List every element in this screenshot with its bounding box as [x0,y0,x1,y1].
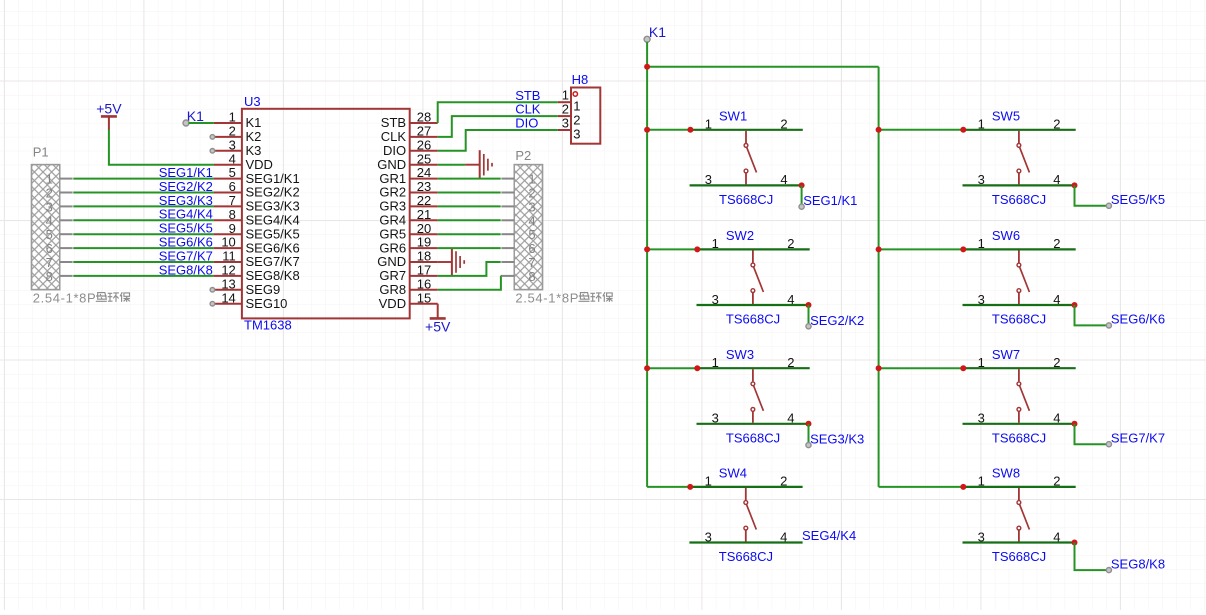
wire P1 pin 5 to U3 SEG5/K5 [73,233,214,235]
svg-text:17: 17 [417,263,431,278]
svg-text:9: 9 [229,221,236,236]
svg-text:SEG3/K3: SEG3/K3 [246,199,300,214]
svg-text:TS668CJ: TS668CJ [992,192,1046,207]
connector P1 [32,165,73,290]
svg-text:K1: K1 [246,115,262,130]
wire U3 pin 22 GR3 to P2 pin 3 [438,205,501,207]
svg-text:19: 19 [417,235,431,250]
svg-text:SEG10: SEG10 [246,296,288,311]
junction on K1 bus at top [644,64,650,70]
wire SW3 pin 4 to net label [808,424,810,445]
svg-text:4: 4 [229,151,236,166]
svg-text:8: 8 [46,269,53,284]
svg-text:TS668CJ: TS668CJ [726,312,780,327]
svg-text:SEG8/K8: SEG8/K8 [246,268,300,283]
junction SW4 pin 1 [687,484,693,490]
svg-text:SEG7/K7: SEG7/K7 [1111,430,1165,445]
U3 right pins 15-28 with numbers and names [377,110,437,311]
connector H8 body [558,88,601,144]
junction SW2 pin 1 [694,246,700,252]
svg-text:27: 27 [417,124,431,139]
wire P1 pin 1 to U3 SEG1/K1 [73,178,214,180]
wire U3 pin 21 GR4 to P2 pin 4 [438,219,501,221]
svg-text:16: 16 [417,276,431,291]
wire U3 pin 23 GR2 to P2 pin 2 [438,192,501,194]
svg-text:26: 26 [417,137,431,152]
svg-text:4: 4 [46,213,53,228]
svg-text:1: 1 [562,88,569,103]
svg-text:+5V: +5V [425,318,451,334]
svg-text:SEG7/K7: SEG7/K7 [159,248,213,263]
svg-text:SEG7/K7: SEG7/K7 [246,254,300,269]
svg-text:3: 3 [562,115,569,130]
wire P1 pin 8 to U3 SEG8/K8 [73,275,214,277]
net port K1 (U3 pin 1) [183,108,204,126]
svg-text:SEG1/K1: SEG1/K1 [159,165,213,180]
wire DIO: U3 pin26 to H8 pin3 [438,130,558,151]
svg-text:TS668CJ: TS668CJ [992,312,1046,327]
svg-text:8: 8 [528,269,535,284]
svg-text:21: 21 [417,207,431,222]
svg-text:7: 7 [229,193,236,208]
svg-text:3: 3 [528,199,535,214]
svg-text:TS668CJ: TS668CJ [719,192,773,207]
wire P1 pin 6 to U3 SEG6/K6 [73,247,214,249]
svg-text:GR3: GR3 [379,199,406,214]
junction SW6 pin 4 [1072,302,1078,308]
svg-text:SEG9: SEG9 [246,282,281,297]
junction SW1 pin 4 [799,182,805,188]
svg-text:23: 23 [417,179,431,194]
wire U3 pin 24 GR1 to P2 pin 1 [438,178,501,180]
svg-text:SEG3/K3: SEG3/K3 [810,432,864,447]
junction SW8 pin 1 [960,484,966,490]
svg-text:SW5: SW5 [992,109,1020,124]
svg-text:7: 7 [46,255,53,270]
junction K1 bus at SW2 [644,246,650,252]
switch SW6 TS668CJ [963,228,1076,326]
power +5V (U3 pin 15) [425,304,451,335]
junction SW7 pin 1 [960,365,966,371]
junction SW1 pin 1 [687,127,693,133]
P1 value label 2.54-1*8P CJK [33,290,130,305]
svg-text:2: 2 [573,113,580,128]
wire K1 top bus to right column [647,66,879,68]
wire U3 pin 17 GR7 to P2 pin 7 [438,262,501,276]
svg-text:2.54-1*8P: 2.54-1*8P [33,290,97,305]
svg-text:K2: K2 [246,129,262,144]
junction K1 bus at SW3 [644,365,650,371]
wire U3 pin 16 GR8 to P2 pin 8 [438,276,501,290]
wire P1 pin 4 to U3 SEG4/K4 [73,219,214,221]
svg-text:2: 2 [562,101,569,116]
svg-text:SEG8/K8: SEG8/K8 [159,262,213,277]
svg-text:GND: GND [377,157,406,172]
svg-text:K3: K3 [246,143,262,158]
junction SW2 pin 4 [806,302,812,308]
junction K1 bus at SW1 [644,127,650,133]
svg-text:SW2: SW2 [726,228,754,243]
U3 left pins 1-14 with numbers and names [214,110,300,311]
svg-text:1: 1 [229,110,236,125]
junction SW5 pin 4 [1072,182,1078,188]
svg-text:CLK: CLK [515,102,541,117]
svg-text:SW1: SW1 [719,109,747,124]
svg-text:U3: U3 [244,94,261,109]
svg-text:SEG4/K4: SEG4/K4 [802,528,856,543]
svg-text:GND: GND [377,254,406,269]
svg-text:22: 22 [417,193,431,208]
svg-text:2: 2 [528,186,535,201]
ground GND at U3 pin 18 [438,248,465,277]
wire K1 bus to SW3 pin 1 [647,367,698,369]
wire K1 bus to SW6 pin 1 [879,248,965,250]
junction SW6 pin 1 [960,246,966,252]
junction K1 bus at SW6 [876,246,882,252]
wire U3 pin 20 GR5 to P2 pin 5 [438,233,501,235]
svg-text:VDD: VDD [379,296,406,311]
svg-text:SEG6/K6: SEG6/K6 [1111,312,1165,327]
svg-text:7: 7 [528,255,535,270]
svg-text:DIO: DIO [515,116,538,131]
wire K1 bus to SW5 pin 1 [879,129,965,131]
net port K1 (key matrix) [644,24,666,42]
svg-text:STB: STB [381,115,406,130]
wire SW1 pin 4 to net label [801,185,803,206]
wire K1 vertical bus (right) [878,67,880,487]
switch SW3 TS668CJ [697,347,810,445]
wire K1 bus to SW2 pin 1 [647,248,698,250]
wire P1 pin 7 to U3 SEG7/K7 [73,261,214,263]
junction SW5 pin 1 [960,127,966,133]
svg-text:15: 15 [417,290,431,305]
ground GND at U3 pin 25 [438,150,492,179]
svg-text:SEG5/K5: SEG5/K5 [246,226,300,241]
wire U3 pin 19 GR6 to P2 pin 6 [438,247,501,249]
switch SW1 TS668CJ [690,109,803,207]
svg-text:STB: STB [515,88,540,103]
wire SW8 pin 4 to net label [1075,543,1109,571]
svg-text:SW8: SW8 [992,466,1020,481]
wire P1 pin 3 to U3 SEG3/K3 [73,205,214,207]
svg-text:TS668CJ: TS668CJ [726,430,780,445]
U3 no-connect dots pins 2,3,13,14 [210,135,215,306]
wire K1 bus to SW8 pin 1 [879,486,965,488]
svg-text:GR4: GR4 [379,213,406,228]
wire STB: U3 pin28 to H8 pin1 [438,102,558,123]
junction K1 bus at SW5 [876,127,882,133]
svg-text:GR2: GR2 [379,185,406,200]
svg-text:SEG2/K2: SEG2/K2 [810,313,864,328]
wire K1 vertical bus (left) [646,42,648,487]
svg-text:SEG2/K2: SEG2/K2 [159,179,213,194]
svg-text:6: 6 [528,241,535,256]
wire SW2 pin 4 to net label [808,305,810,326]
svg-text:SW3: SW3 [726,347,754,362]
svg-text:GR5: GR5 [379,226,406,241]
svg-text:18: 18 [417,249,431,264]
junction SW8 pin 4 [1072,540,1078,546]
svg-text:1: 1 [573,99,580,114]
svg-text:28: 28 [417,110,431,125]
svg-text:GR7: GR7 [379,268,406,283]
svg-text:SEG4/K4: SEG4/K4 [159,207,213,222]
wire K1 bus to SW7 pin 1 [879,367,965,369]
svg-text:SEG2/K2: SEG2/K2 [246,185,300,200]
svg-text:VDD: VDD [246,157,273,172]
svg-text:GR8: GR8 [379,282,406,297]
svg-text:GR1: GR1 [379,171,406,186]
svg-text:SEG8/K8: SEG8/K8 [1111,556,1165,571]
wire CLK: U3 pin27 to H8 pin2 [438,116,558,137]
wire SW7 pin 4 to net label [1075,424,1109,444]
svg-text:SEG3/K3: SEG3/K3 [159,193,213,208]
svg-text:11: 11 [222,249,236,264]
junction SW7 pin 4 [1072,421,1078,427]
svg-text:2: 2 [46,186,53,201]
wire SW6 pin 4 to net label [1075,305,1109,325]
svg-text:12: 12 [221,263,235,278]
switch SW4 TS668CJ [689,466,802,564]
wire K1 to U3 pin 1 [189,122,214,124]
svg-text:+5V: +5V [96,100,122,116]
svg-text:4: 4 [528,213,535,228]
junction K1 bus at SW7 [876,365,882,371]
svg-text:1: 1 [46,172,53,187]
IC U3 TM1638 body [242,109,410,319]
power +5V (top left) [96,100,122,130]
svg-text:6: 6 [46,241,53,256]
svg-text:3: 3 [573,126,580,141]
svg-text:5: 5 [528,227,535,242]
svg-text:SW7: SW7 [992,347,1020,362]
svg-text:5: 5 [46,227,53,242]
svg-text:SEG6/K6: SEG6/K6 [159,235,213,250]
svg-text:2: 2 [229,124,236,139]
svg-text:K1: K1 [649,24,666,40]
svg-text:TM1638: TM1638 [244,318,292,333]
svg-text:2.54-1*8P: 2.54-1*8P [515,290,579,305]
junction SW3 pin 1 [694,365,700,371]
svg-text:TS668CJ: TS668CJ [992,430,1046,445]
svg-text:6: 6 [229,179,236,194]
svg-text:SW4: SW4 [719,466,747,481]
junction SW3 pin 4 [806,421,812,427]
svg-text:SW6: SW6 [992,228,1020,243]
svg-text:DIO: DIO [383,143,406,158]
svg-text:14: 14 [221,290,235,305]
svg-text:SEG5/K5: SEG5/K5 [159,221,213,236]
wire K1 bus to SW1 pin 1 [647,129,692,131]
svg-text:P2: P2 [515,148,531,163]
svg-text:3: 3 [229,137,236,152]
svg-text:SEG5/K5: SEG5/K5 [1111,192,1165,207]
svg-text:TS668CJ: TS668CJ [719,549,773,564]
connector P2 [501,165,542,290]
svg-text:25: 25 [417,151,431,166]
switch SW8 TS668CJ [963,466,1076,564]
svg-text:3: 3 [46,199,53,214]
svg-text:24: 24 [417,165,431,180]
svg-text:SEG1/K1: SEG1/K1 [246,171,300,186]
svg-text:H8: H8 [572,72,589,87]
svg-text:SEG1/K1: SEG1/K1 [803,193,857,208]
svg-text:CLK: CLK [381,129,407,144]
wire +5V to U3 VDD pin 4 [109,130,214,165]
switch SW2 TS668CJ [697,228,810,326]
switch SW5 TS668CJ [963,109,1076,207]
svg-text:SEG6/K6: SEG6/K6 [246,240,300,255]
svg-text:1: 1 [528,172,535,187]
wire P1 pin 2 to U3 SEG2/K2 [73,192,214,194]
svg-text:8: 8 [229,207,236,222]
svg-text:5: 5 [229,165,236,180]
P2 value label 2.54-1*8P CJK [515,290,612,305]
svg-text:P1: P1 [33,144,49,159]
svg-text:13: 13 [221,276,235,291]
svg-text:20: 20 [417,221,431,236]
switch SW7 TS668CJ [963,347,1076,445]
wire K1 bus to SW4 pin 1 [647,486,691,488]
wire SW5 pin 4 to net label [1075,185,1109,205]
svg-text:10: 10 [221,235,235,250]
svg-text:SEG4/K4: SEG4/K4 [246,213,300,228]
svg-text:GR6: GR6 [379,240,406,255]
svg-text:TS668CJ: TS668CJ [992,549,1046,564]
